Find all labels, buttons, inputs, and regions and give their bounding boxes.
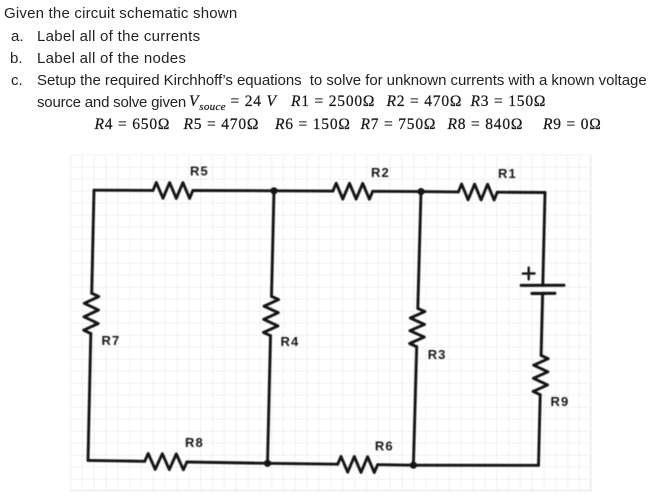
resistor R6 (338, 456, 378, 472)
grid right edge line (590, 155, 592, 491)
wire: left rail lower (88, 334, 91, 461)
battery V1 long plate (521, 284, 564, 287)
wire: right rail middle (battery to R9) (541, 293, 543, 355)
svg-text:R7: R7 (102, 333, 121, 348)
resistor R5 (153, 183, 193, 199)
wire: top rail left segment (94, 189, 153, 192)
node D (bottom, R3 branch) (410, 462, 417, 469)
resistor R7 (84, 293, 99, 333)
svg-text:R6: R6 (375, 439, 394, 454)
wire: middle rail upper (R4 branch) (272, 191, 275, 296)
resistor R1 (458, 184, 497, 200)
wire: left rail (92, 190, 94, 293)
node C (bottom, R4 branch) (264, 460, 271, 467)
wire: bottom rail left segment (88, 459, 145, 463)
node B (top, R3 branch) (417, 188, 424, 195)
wire: bottom rail segment R8 to node C (187, 462, 338, 464)
svg-text:R1: R1 (498, 166, 517, 181)
node A (top, R4 branch) (270, 187, 277, 194)
wire: top rail segment R2 to node B (373, 190, 459, 193)
resistor R9 (533, 355, 548, 394)
resistor R3 (410, 308, 425, 346)
svg-text:R3: R3 (428, 347, 447, 362)
svg-text:R4: R4 (281, 334, 300, 349)
battery plus sign (523, 268, 535, 280)
wire: right rail lower (539, 395, 541, 466)
wire: bottom rail segment R6 to node D (378, 463, 414, 466)
wire: top rail segment R5 to node A (193, 189, 333, 193)
wire: R3 branch upper (418, 192, 421, 309)
svg-text:R9: R9 (551, 394, 570, 409)
resistor R8 (145, 454, 187, 470)
grid bottom edge line (70, 490, 591, 492)
wire: top rail segment R1 to corner (497, 191, 545, 194)
wire: R3 branch lower (413, 347, 416, 466)
battery V1 short plate (532, 292, 555, 295)
wire: right rail upper (to battery) (543, 193, 545, 286)
problem statement text (4, 5, 237, 22)
wire: middle rail lower (R4 branch) (268, 336, 271, 464)
svg-text:R2: R2 (371, 165, 390, 180)
wire: bottom rail segment node D to corner (413, 464, 538, 467)
grid paper background (70, 155, 591, 491)
resistor R2 (333, 183, 373, 199)
svg-text:R8: R8 (185, 435, 204, 450)
svg-text:R5: R5 (190, 164, 209, 179)
resistor R4 (263, 296, 278, 335)
